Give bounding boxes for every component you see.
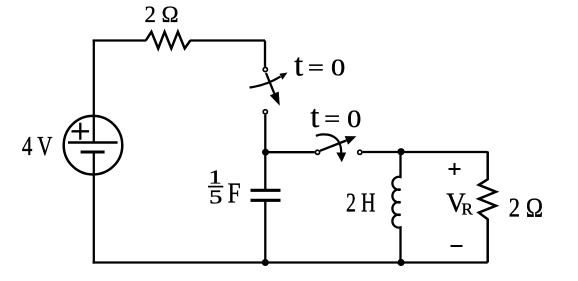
- svg-text:t: t: [310, 98, 319, 134]
- svg-text:= 0: = 0: [324, 104, 361, 133]
- svg-text:2 H: 2 H: [346, 187, 376, 217]
- svg-text:2 Ω: 2 Ω: [509, 192, 543, 222]
- svg-text:5: 5: [209, 186, 222, 208]
- svg-text:t: t: [294, 46, 303, 82]
- svg-text:= 0: = 0: [308, 55, 345, 81]
- svg-text:R: R: [462, 200, 474, 219]
- svg-text:F: F: [228, 178, 241, 209]
- svg-text:2 Ω: 2 Ω: [145, 2, 179, 27]
- svg-text:4 V: 4 V: [22, 131, 53, 161]
